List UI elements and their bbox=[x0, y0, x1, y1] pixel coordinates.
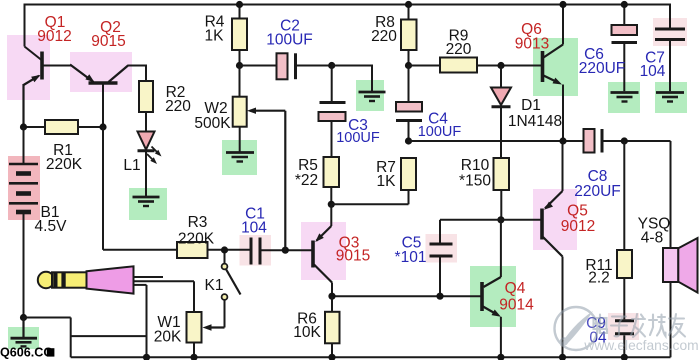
label R8 bbox=[371, 14, 397, 45]
wire node A to R1 bbox=[24, 126, 46, 128]
wire node J to Q5 base bbox=[501, 219, 541, 221]
wire Q6 emitter down bbox=[562, 85, 564, 142]
node C8 right junction bbox=[621, 137, 628, 144]
label C3 bbox=[336, 117, 380, 146]
node C junction bbox=[282, 247, 289, 254]
wire top rail to R8 bbox=[408, 5, 410, 20]
wire node to switch K1 bbox=[224, 250, 226, 264]
resistor R11 bbox=[617, 250, 632, 278]
wire bottom rail bbox=[71, 356, 671, 358]
ground under C7 bbox=[656, 93, 684, 102]
highlight behind Q5 bbox=[533, 189, 577, 250]
highlight behind Q1 bbox=[7, 35, 50, 100]
svg-text:10K: 10K bbox=[293, 324, 321, 341]
highlight behind ground of W2 bbox=[222, 140, 257, 175]
ground under C6 bbox=[611, 93, 639, 102]
label C1 bbox=[241, 206, 267, 237]
label Q6 bbox=[515, 21, 549, 53]
svg-text:L1: L1 bbox=[123, 157, 140, 174]
svg-text:*22: *22 bbox=[295, 172, 318, 189]
highlight behind ground of L1 bbox=[129, 188, 167, 220]
capacitor C6 bbox=[612, 25, 638, 43]
highlight behind C5 bbox=[426, 234, 458, 263]
capacitor C3 bbox=[319, 103, 346, 122]
wire Q4 emitter to bottom rail bbox=[500, 317, 502, 358]
resistor R1 bbox=[45, 120, 78, 134]
svg-text:9014: 9014 bbox=[499, 297, 534, 314]
svg-text:220: 220 bbox=[446, 41, 472, 58]
ground node junction bbox=[20, 314, 27, 321]
wire node M to R6 bbox=[331, 296, 333, 312]
label C7 bbox=[640, 50, 666, 81]
svg-text:220UF: 220UF bbox=[579, 60, 626, 77]
capacitor C5 bbox=[430, 244, 453, 256]
svg-text:Q4: Q4 bbox=[505, 280, 526, 297]
wire speaker to bottom rail bbox=[670, 282, 672, 357]
capacitor C8 bbox=[584, 129, 603, 153]
svg-text:*150: *150 bbox=[459, 173, 491, 190]
resistor R10 bbox=[494, 158, 510, 190]
svg-text:R3: R3 bbox=[188, 214, 208, 231]
wire plug ring contact to W1 bbox=[134, 281, 195, 312]
W2 wiper to node C bbox=[247, 108, 285, 251]
node M junction bbox=[328, 293, 335, 300]
wire K1 to W1 wiper bbox=[224, 300, 226, 328]
wire Q3 emitter to node F bbox=[330, 204, 332, 226]
wire lower link bbox=[71, 335, 147, 337]
highlight behind Q6 bbox=[533, 38, 578, 96]
node G junction bbox=[405, 62, 412, 69]
node D junction bbox=[236, 62, 243, 69]
label K1 bbox=[205, 277, 224, 294]
label Q3 bbox=[336, 235, 370, 265]
wire Q5 emitter up bbox=[562, 141, 564, 191]
label R1 bbox=[46, 142, 83, 173]
svg-text:9015: 9015 bbox=[336, 248, 370, 265]
battery B1 bbox=[9, 164, 38, 212]
wire Q2 base down bbox=[102, 85, 104, 128]
label Q5 bbox=[561, 203, 595, 236]
label R5 bbox=[295, 157, 318, 189]
svg-text:100UF: 100UF bbox=[336, 130, 380, 146]
resistor R3 bbox=[177, 242, 208, 258]
label R4 bbox=[205, 14, 225, 45]
wire node H to D1 bbox=[500, 66, 502, 88]
svg-text:20K: 20K bbox=[154, 329, 182, 346]
svg-text:9012: 9012 bbox=[561, 218, 595, 235]
svg-text:9015: 9015 bbox=[91, 33, 125, 50]
capacitor C1 bbox=[251, 238, 260, 265]
wire R8 to node G bbox=[408, 50, 410, 66]
node B junction bbox=[99, 123, 106, 130]
wire top rail to R4 bbox=[239, 5, 241, 19]
label W2 bbox=[194, 100, 231, 132]
wire Q1 collector to top rail bbox=[25, 4, 42, 61]
svg-text:220UF: 220UF bbox=[574, 183, 621, 200]
wire node D to W2 bbox=[239, 66, 241, 97]
wire C9 to bottom rail bbox=[623, 335, 625, 357]
wire R2 to L1 bbox=[145, 112, 147, 131]
node J junction bbox=[497, 216, 504, 223]
transistor Q4 bbox=[482, 282, 501, 317]
label R10 bbox=[459, 157, 491, 190]
node A junction bbox=[20, 123, 27, 130]
label L1 bbox=[123, 157, 140, 174]
resistor R4 bbox=[232, 19, 247, 51]
resistor R7 bbox=[401, 158, 416, 190]
resistor R6 bbox=[325, 312, 340, 344]
label R2 bbox=[165, 84, 191, 115]
wire top rail to C6 bbox=[623, 5, 625, 26]
highlight behind ground of C7 bbox=[655, 82, 687, 113]
resistor R2 bbox=[139, 81, 153, 112]
label R11 bbox=[585, 257, 612, 287]
wire node G to C4 bbox=[408, 66, 410, 103]
svg-text:1K: 1K bbox=[377, 173, 397, 190]
watermark elecfans logo and text bbox=[555, 307, 699, 353]
transistor Q1 bbox=[24, 52, 43, 128]
resistor R9 bbox=[440, 58, 477, 73]
node I junction bbox=[405, 137, 412, 144]
label YSQ bbox=[638, 216, 671, 247]
wire node G to R9 bbox=[409, 65, 441, 67]
ground under battery bbox=[11, 318, 38, 347]
capacitor C2 bbox=[277, 53, 296, 79]
node E junction bbox=[328, 62, 335, 69]
label R9 bbox=[446, 28, 472, 59]
wire Q1 base bbox=[43, 65, 71, 67]
svg-text:100UF: 100UF bbox=[418, 124, 462, 140]
label R3 bbox=[178, 214, 215, 248]
wire battery to ground node bbox=[23, 212, 25, 318]
svg-text:4-8: 4-8 bbox=[641, 230, 663, 247]
label B1 bbox=[35, 204, 68, 235]
speaker YSQ bbox=[663, 238, 698, 293]
svg-text:*101: *101 bbox=[395, 249, 427, 266]
highlight behind Q4 bbox=[470, 266, 516, 327]
svg-text:104: 104 bbox=[241, 220, 267, 237]
svg-text:Q5: Q5 bbox=[567, 203, 588, 220]
svg-text:104: 104 bbox=[640, 63, 666, 80]
wire W1 to bottom rail bbox=[193, 343, 195, 358]
wire Q2 base node down to R3 row bbox=[103, 127, 177, 250]
wire Q2 collector to R2 bbox=[128, 65, 147, 82]
wire C8 to right corner bbox=[604, 141, 671, 248]
wire C5 to node L bbox=[439, 258, 441, 297]
potentiometer W2 bbox=[233, 97, 247, 127]
node R4 top junction bbox=[236, 1, 243, 8]
svg-text:2.2: 2.2 bbox=[588, 270, 610, 287]
wire node I to C8 bbox=[409, 140, 584, 142]
node H junction bbox=[497, 62, 504, 69]
svg-text:D1: D1 bbox=[521, 97, 541, 114]
svg-text:1N4148: 1N4148 bbox=[508, 113, 562, 130]
wire plug sleeve to bottom rail bbox=[134, 285, 147, 357]
svg-text:1K: 1K bbox=[205, 28, 225, 45]
svg-text:9013: 9013 bbox=[515, 36, 549, 53]
label Q2 bbox=[91, 19, 125, 50]
highlight behind ground of B1 bbox=[8, 327, 39, 349]
transistor Q5 bbox=[542, 191, 563, 257]
wire R3 to C1 bbox=[208, 249, 250, 251]
highlight behind B1 bbox=[8, 156, 40, 220]
node L junction bbox=[436, 293, 443, 300]
label R6 bbox=[293, 311, 321, 342]
wire top rail bbox=[25, 4, 671, 6]
wire node D to C2 bbox=[240, 65, 277, 67]
svg-text:4.5V: 4.5V bbox=[35, 218, 68, 235]
wire R11 to C9 bbox=[623, 278, 625, 319]
svg-text:Q606.CO: Q606.CO bbox=[0, 346, 53, 360]
wire C1 to Q3 base bbox=[262, 249, 312, 251]
wire node to R11 bbox=[623, 141, 625, 250]
wire node J to C5 bbox=[440, 220, 501, 243]
LED L1 bbox=[138, 132, 162, 165]
resistor R5 bbox=[324, 157, 340, 187]
node F junction bbox=[328, 201, 335, 208]
watermark Q606.COM bbox=[0, 346, 54, 360]
wire C7 to ground bbox=[669, 41, 671, 91]
wire node A to battery bbox=[23, 127, 25, 164]
diode D1 bbox=[491, 88, 511, 107]
node Q6 top junction bbox=[559, 1, 566, 8]
svg-text:500K: 500K bbox=[194, 115, 231, 132]
label C4 bbox=[418, 111, 462, 141]
wire node J down to Q4 collector bbox=[484, 220, 501, 287]
label Q4 bbox=[499, 280, 534, 314]
wire C2 to node E bbox=[297, 65, 332, 67]
capacitor C7 bbox=[655, 29, 685, 40]
label C8 bbox=[574, 168, 621, 200]
wire Q3 collector to node M bbox=[331, 283, 333, 297]
node K1 junction bbox=[221, 246, 228, 253]
ground under L1 bbox=[133, 197, 160, 206]
label C5 bbox=[395, 235, 427, 267]
resistor R8 bbox=[401, 20, 417, 51]
wire R5 to node F bbox=[330, 187, 332, 204]
label C6 bbox=[579, 46, 626, 77]
transistor Q3 bbox=[313, 226, 332, 283]
wire top rail corner to C7 bbox=[669, 4, 671, 28]
wire Q5 collector to bottom rail bbox=[562, 257, 564, 358]
wire R1 to Q2 base node bbox=[78, 126, 103, 128]
transistor Q2 bbox=[70, 65, 128, 84]
wire C3 to R5 bbox=[331, 121, 333, 157]
switch K1 bbox=[222, 264, 241, 300]
wire node E to C3 bbox=[331, 66, 333, 102]
wire R4 to node D bbox=[239, 50, 241, 66]
wire R6 to bottom rail bbox=[331, 343, 333, 357]
label C9 bbox=[586, 315, 607, 347]
wire Q4 base row bbox=[332, 295, 481, 297]
highlight behind Q3 bbox=[301, 222, 346, 280]
ground near C2 bbox=[359, 92, 386, 101]
svg-text:220K: 220K bbox=[46, 156, 83, 173]
capacitor C9 bbox=[615, 321, 634, 334]
node R8 top junction bbox=[405, 1, 412, 8]
label D1 bbox=[508, 97, 562, 130]
highlight behind C1 bbox=[240, 235, 272, 266]
W1 wiper bbox=[203, 324, 225, 330]
label Q1 bbox=[37, 14, 71, 45]
highlight behind C9 bbox=[608, 313, 639, 340]
wire C4 to node I bbox=[408, 122, 410, 142]
capacitor C4 bbox=[396, 102, 422, 121]
wire R9 to node H bbox=[477, 65, 542, 67]
wire node E to ground bbox=[332, 65, 372, 92]
label R7 bbox=[376, 159, 396, 190]
wire W2 to ground bbox=[239, 127, 241, 152]
highlight behind ground of C6 bbox=[608, 82, 640, 113]
wire Q6 collector to top rail bbox=[562, 5, 564, 45]
highlight behind C7 bbox=[653, 18, 687, 46]
ground under W2 bbox=[226, 153, 254, 162]
highlight behind Q2 bbox=[70, 52, 132, 92]
highlight behind ground of C2 node bbox=[356, 80, 384, 111]
transistor Q6 bbox=[543, 45, 564, 85]
svg-text:www.elecfans.com: www.elecfans.com bbox=[583, 338, 698, 353]
label C2 bbox=[266, 18, 313, 49]
svg-text:220: 220 bbox=[371, 28, 397, 45]
label W1 bbox=[154, 314, 182, 346]
svg-text:9012: 9012 bbox=[37, 28, 71, 45]
svg-text:220: 220 bbox=[165, 98, 191, 115]
wire plug tip contact bbox=[134, 276, 164, 278]
wire node F to R7 bbox=[331, 190, 408, 204]
audio plug bbox=[38, 266, 134, 293]
wire C6 to ground bbox=[623, 44, 625, 92]
wire ground node to bottom rail bbox=[24, 318, 71, 358]
wire R10 to node J bbox=[500, 190, 502, 220]
svg-text:220K: 220K bbox=[178, 231, 215, 248]
wire L1 to ground bbox=[145, 152, 147, 196]
bottom rail junctions bbox=[143, 354, 628, 360]
svg-text:100UF: 100UF bbox=[266, 32, 313, 49]
wire D1 to R10 bbox=[500, 108, 502, 158]
node N junction bbox=[559, 137, 566, 144]
svg-text:R10: R10 bbox=[461, 157, 490, 174]
node C6 top junction bbox=[621, 1, 628, 8]
potentiometer W1 bbox=[187, 312, 202, 343]
svg-text:K1: K1 bbox=[205, 277, 224, 294]
